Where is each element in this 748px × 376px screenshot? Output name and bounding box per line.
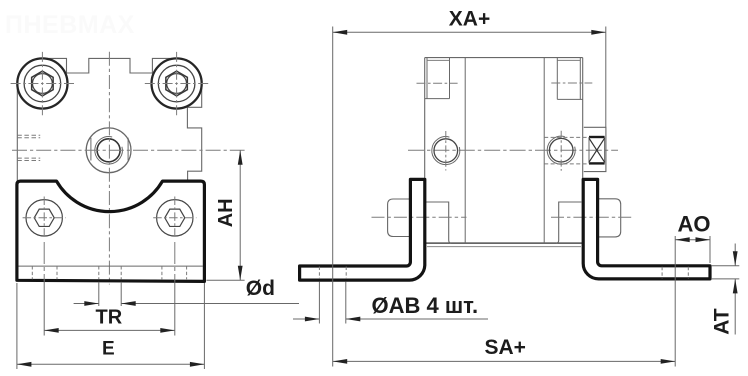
right pocket recess bbox=[556, 202, 581, 243]
AT dimension lines with arrows bbox=[734, 244, 736, 335]
AT arrow bottom (points up) bbox=[733, 279, 738, 294]
Oed arrow left (points right) bbox=[84, 301, 99, 306]
right hole centerline / AO SA extension bbox=[674, 236, 676, 367]
port P2 circle bbox=[549, 138, 573, 162]
foot bolt B1 centerline extension to TR bbox=[43, 242, 45, 281]
side view body bottom edge bbox=[425, 242, 583, 244]
foot bolt B1 hex bbox=[34, 209, 54, 226]
TR dimension line bbox=[44, 329, 175, 331]
hidden channel line bottom bbox=[544, 163, 589, 165]
side view body right face bbox=[582, 58, 584, 244]
left clamp nut bbox=[388, 199, 410, 237]
hidden channel line top bbox=[544, 136, 589, 138]
XA+ dimension line bbox=[333, 31, 606, 33]
central bore inner circle bbox=[97, 139, 120, 162]
port P1 (left) thread arc bbox=[432, 137, 460, 165]
svg-text:XA+: XA+ bbox=[449, 8, 490, 31]
Oed dimension line bbox=[74, 303, 299, 305]
screw counterbore right centerline bbox=[551, 82, 592, 84]
Oed arrow right (points left) bbox=[121, 301, 136, 306]
AO dimension line bbox=[675, 239, 710, 241]
OeAB dimension line bbox=[293, 318, 488, 320]
AH bottom extension line bbox=[207, 279, 245, 281]
OeAB arrow right (points left) bbox=[346, 317, 361, 322]
foot clamp bracket thick outline bbox=[17, 181, 205, 281]
screw M1 centerlines bbox=[11, 52, 75, 116]
E arrow right bbox=[190, 362, 205, 367]
TR arrow right bbox=[160, 328, 175, 333]
E arrow left bbox=[17, 362, 32, 367]
body bottom second line bbox=[427, 246, 581, 248]
svg-text:ПНЕВМАХ: ПНЕВМАХ bbox=[5, 11, 135, 39]
port P2 (right) thread arc bbox=[547, 136, 575, 164]
screw counterbore right rim line bbox=[558, 59, 581, 61]
Oed hole extension lines bbox=[99, 282, 121, 306]
svg-text:AH: AH bbox=[215, 198, 237, 227]
OeAB extension lines bbox=[319, 282, 345, 324]
E dimension line bbox=[17, 363, 205, 365]
svg-text:TR: TR bbox=[96, 306, 123, 328]
left clamp bolt axis bbox=[372, 216, 467, 218]
screw M1 hex socket bbox=[32, 71, 53, 96]
cylinder body front outline bbox=[17, 58, 201, 180]
left pocket recess bbox=[426, 202, 451, 243]
right clamp nut bbox=[597, 199, 620, 237]
E extension lines bbox=[17, 283, 205, 369]
bracket bend line bbox=[19, 265, 204, 267]
SA+ dimension line bbox=[333, 360, 676, 362]
AO right extension line bbox=[709, 236, 711, 263]
left foot bracket (thick) bbox=[300, 179, 425, 280]
seal element box bottom bar bbox=[589, 162, 605, 164]
screw M2 socket circle bbox=[167, 74, 187, 94]
foot bolt B1 (left) circle bbox=[26, 200, 62, 236]
AO arrow right bbox=[696, 237, 711, 242]
AH arrow bottom bbox=[238, 266, 243, 281]
AT arrow top (points down) bbox=[733, 251, 738, 265]
hidden hole edges in bracket base bbox=[32, 266, 186, 279]
side view body left face bbox=[424, 58, 426, 244]
screw M1 socket circle bbox=[33, 74, 53, 94]
left foot hole hidden edges bbox=[319, 267, 346, 279]
main horizontal centerline bbox=[408, 149, 618, 151]
AH arrow top bbox=[238, 150, 243, 165]
svg-text:Ød: Ød bbox=[246, 277, 275, 300]
end cap joint line left bbox=[464, 58, 466, 244]
screw counterbore left centerline bbox=[417, 82, 458, 84]
hidden sensor-slot lines (left side) bbox=[17, 135, 40, 160]
svg-text:AT: AT bbox=[710, 308, 733, 335]
XA+ arrow right bbox=[591, 30, 606, 35]
left hole centerline / XA SA extension bbox=[332, 27, 334, 367]
foot bolt B1 centerlines bbox=[23, 197, 66, 240]
screw M2 (top right) head outline bbox=[152, 58, 202, 108]
screw counterbore left rim line bbox=[427, 59, 449, 61]
foot bolt B2 centerlines bbox=[153, 197, 196, 240]
svg-text:SA+: SA+ bbox=[485, 336, 526, 359]
XA+ right extension line bbox=[605, 27, 607, 128]
XA+ arrow left bbox=[333, 30, 348, 35]
screw M1 (top left) head outline bbox=[17, 58, 67, 108]
screw counterbore right (side view) bbox=[557, 58, 582, 100]
AT extension lines bbox=[712, 266, 740, 279]
AO arrow left bbox=[675, 237, 690, 242]
foot bolt B2 hex bbox=[165, 209, 185, 226]
foot bolt B2 centerline extension to TR bbox=[174, 242, 176, 281]
SA+ arrow right bbox=[661, 359, 676, 364]
screw M2 centerlines bbox=[145, 52, 209, 116]
right clamp bolt axis bbox=[551, 216, 633, 218]
foot bolt B2 (right) circle bbox=[157, 200, 193, 236]
body vertical centerline bbox=[108, 52, 110, 285]
SA+ arrow left bbox=[333, 359, 348, 364]
central bore thread arc bbox=[95, 137, 123, 165]
svg-text:E: E bbox=[102, 338, 115, 359]
side view body top edge bbox=[425, 57, 583, 59]
end cap joint line right bbox=[543, 58, 545, 244]
AH dimension line bbox=[239, 150, 241, 280]
svg-text:ØAB: ØAB bbox=[372, 293, 421, 318]
svg-text:4 шт.: 4 шт. bbox=[427, 293, 479, 318]
central bore outer circle bbox=[86, 128, 131, 173]
screw M2 counterbore bbox=[158, 65, 195, 102]
OeAB arrow left (points right) bbox=[305, 317, 320, 322]
port P1 circle bbox=[434, 139, 458, 163]
TR arrow left bbox=[44, 328, 59, 333]
port P1 vertical centerline bbox=[445, 131, 447, 171]
right foot hole hidden edges bbox=[662, 267, 688, 279]
seal element box top bar bbox=[589, 136, 605, 138]
port P2 vertical centerline bbox=[560, 131, 562, 171]
bore boss edges bbox=[91, 138, 128, 161]
cushion boss rectangle bbox=[584, 127, 606, 171]
seal element box sides bbox=[589, 137, 605, 163]
body horizontal centerline (AH top extension) bbox=[12, 149, 245, 151]
screw M2 hex socket bbox=[166, 71, 187, 96]
svg-text:AO: AO bbox=[678, 212, 711, 237]
seal element X diagonals bbox=[589, 138, 605, 162]
right foot bracket (thick) bbox=[583, 179, 710, 279]
screw counterbore left (side view) bbox=[425, 58, 450, 99]
screw M1 counterbore bbox=[24, 65, 61, 102]
